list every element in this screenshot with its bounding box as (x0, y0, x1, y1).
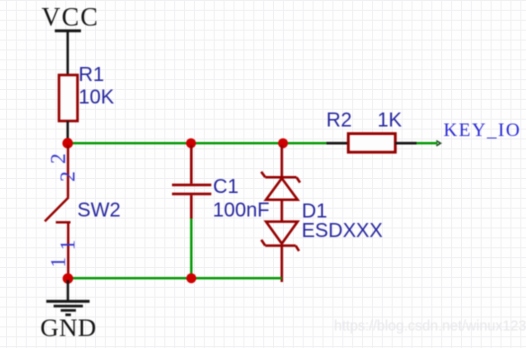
junction node B (186, 138, 196, 148)
wire bottom rail node D to node E (68, 277, 191, 279)
resistor R2 pin 2 (395, 142, 416, 145)
svg-text:10K: 10K (79, 87, 115, 109)
wire VCC to R1 (66, 31, 68, 76)
capacitor C1 (172, 145, 211, 219)
wire node A to node B (top rail) (68, 142, 191, 144)
svg-text:100nF: 100nF (213, 200, 270, 222)
svg-text:1K: 1K (377, 110, 402, 132)
resistor R1 (59, 75, 78, 121)
wire node B to node C (top rail) (191, 142, 283, 144)
junction node E (186, 273, 196, 283)
svg-text:ESDXXX: ESDXXX (302, 220, 383, 242)
diode D1 (bidirectional ESD/TVS) (261, 145, 300, 282)
svg-text:1: 1 (55, 240, 79, 251)
junction node D (63, 273, 74, 284)
wire bottom rail node E to D1 (191, 277, 281, 279)
resistor R2 pin 1 (327, 142, 349, 145)
power port VCC (42, 3, 100, 32)
junction node A (62, 138, 73, 149)
svg-text:https://blog.csdn.net/winux123: https://blog.csdn.net/winux123 (334, 319, 526, 335)
junction node C (278, 138, 288, 148)
wire R2 to KEY_IO (417, 141, 441, 146)
svg-text:1: 1 (46, 257, 70, 268)
svg-text:GND: GND (40, 313, 96, 342)
wire R1 to node A (66, 121, 68, 143)
svg-text:R2: R2 (326, 110, 352, 132)
svg-text:R1: R1 (79, 64, 105, 86)
switch SW2 (45, 145, 71, 276)
wire C1 to bottom rail (190, 219, 192, 279)
svg-text:KEY_IO: KEY_IO (444, 120, 522, 141)
svg-text:SW2: SW2 (77, 200, 120, 222)
svg-text:2: 2 (55, 171, 79, 182)
svg-text:VCC: VCC (42, 3, 100, 32)
svg-text:2: 2 (46, 153, 70, 164)
resistor R2 (348, 134, 395, 153)
ground (46, 280, 89, 315)
wire node C to R2 (283, 142, 327, 144)
svg-text:C1: C1 (213, 176, 239, 198)
